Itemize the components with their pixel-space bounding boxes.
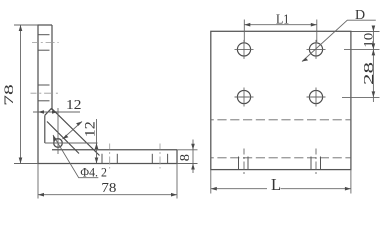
centerline hole row 1 vertical leg [32,42,59,44]
slot ticks bottom [238,157,240,170]
crosshairs holes [235,48,254,50]
slot line horizontal leg 3 [151,154,153,164]
slot centerline col2 [315,149,317,177]
arrowhead D leader [302,58,308,62]
arrowheads dimensions 10 and 28 [372,26,376,98]
inner edge horizontal leg [52,149,177,151]
hole top-right [309,43,322,56]
hidden line upper [211,119,351,121]
plate outline [211,31,351,169]
svg-text:10: 10 [360,33,375,48]
svg-text:78: 78 [101,180,116,195]
hole bottom-left [237,90,250,103]
slot line horizontal leg 2 [116,154,118,164]
arrowheads dimension 12 vertical [95,143,99,164]
dimension 12 vertical at corner [96,119,98,164]
arrowhead phi 4.2 leader [53,135,57,141]
arrowheads dimension L1 [244,23,316,27]
arrowheads dimension 8 [191,144,195,170]
arrowheads gusset leader [63,122,83,140]
svg-text:28: 28 [362,62,377,85]
dimension 78 bottom [38,164,177,199]
dimension 12 horizontal at corner [33,111,80,113]
svg-text:12: 12 [66,98,81,113]
svg-text:78: 78 [1,84,16,106]
hole bottom-right [309,90,322,103]
svg-text:L1: L1 [276,12,289,27]
left view: L-bracket outer outline [38,25,177,164]
arrowheads dimension 12 horizontal [38,110,58,114]
dimension 10 right [342,26,380,102]
centerline hole col 2 horizontal leg [159,144,161,169]
dimension 8 right end [177,140,198,174]
arrowheads dimension 78 bottom [38,193,177,197]
slot line vertical leg 4 [38,100,50,102]
gusset top end edge [45,108,52,115]
dimension L bottom [211,170,351,194]
svg-text:12: 12 [82,121,98,137]
centerline hole col 1 horizontal leg [109,144,111,169]
slot centerline col1 [243,149,245,177]
svg-text:Φ4. 2: Φ4. 2 [80,164,107,179]
hidden line lower [211,157,351,159]
slot line vertical leg 3 [38,84,50,86]
dimension 78 left [14,25,38,164]
hole circle in gusset [54,139,63,148]
gusset left edge [44,115,46,143]
leader phi 4.2 through hole [53,135,98,178]
arrowheads dimension 78 left [19,25,23,164]
arrowheads dimension L [211,187,351,191]
slot line vertical leg 2 [38,49,50,51]
slot line vertical leg 1 [38,34,50,36]
slot line horizontal leg 1 [101,154,103,164]
hole top-left [237,43,250,56]
leader arrow through gusset plate [63,122,83,140]
dimension L1 [244,20,316,43]
svg-text:8: 8 [178,154,193,161]
svg-text:L: L [271,175,281,194]
gusset hypotenuse inner [47,122,79,154]
gusset hole horizontal centerline [45,142,98,144]
inner edge vertical leg [51,25,53,110]
gusset hole vertical centerline [57,108,59,154]
centerline hole row 2 vertical leg [31,92,60,94]
gusset hypotenuse outer [52,108,100,155]
slot line horizontal leg 4 [167,154,169,164]
